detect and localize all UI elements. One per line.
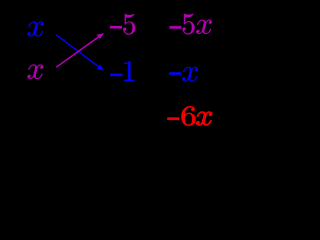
factor term x (row 2, magenta) (28, 65, 44, 80)
cross arrow blue: x(row1) -> -1 (56, 35, 99, 68)
cross arrow magenta: x(row2) -> -5 (56, 36, 99, 67)
cross-multiplication (X-method) factoring diagram (0, 0, 234, 140)
cross product -5x (row 1, magenta) (169, 14, 212, 35)
sum of products -6x (row 3, red, bold) (167, 106, 212, 125)
cross product -x (row 2, blue) (169, 67, 198, 82)
factor term x (row 1, blue) (28, 22, 44, 37)
constant term -1 (row 2, blue) (110, 61, 134, 81)
constant term -5 (row 1, magenta) (110, 14, 135, 35)
